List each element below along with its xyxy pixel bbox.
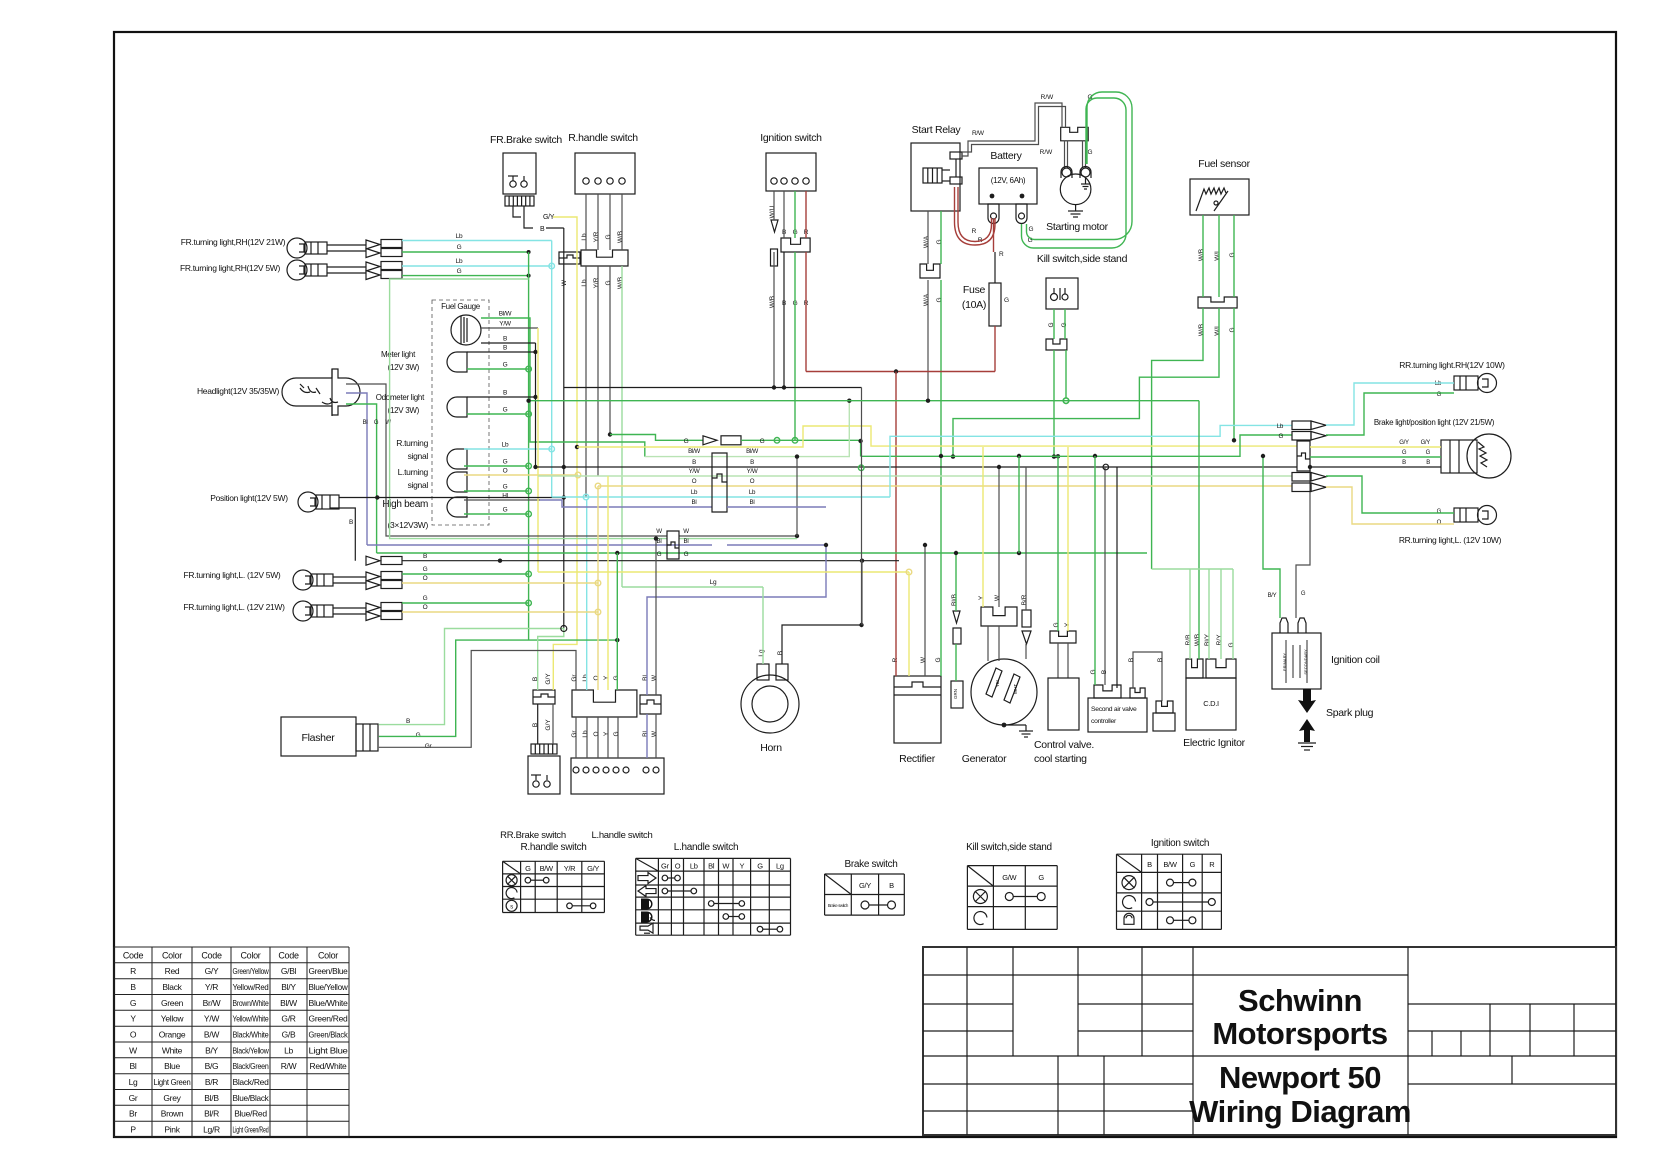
svg-text:R: R — [999, 251, 1004, 258]
svg-text:Y: Y — [978, 595, 985, 600]
svg-text:Gr: Gr — [425, 743, 433, 750]
svg-text:Brake light/position light (12: Brake light/position light (12V 21/5W) — [1374, 418, 1495, 427]
svg-text:Black/White: Black/White — [233, 1030, 269, 1040]
svg-text:Light Green: Light Green — [154, 1077, 192, 1087]
svg-text:PRIMARY: PRIMARY — [1282, 653, 1287, 671]
svg-text:W: W — [920, 656, 927, 663]
svg-text:Hl: Hl — [502, 493, 508, 500]
svg-text:Bl/W: Bl/W — [688, 448, 700, 455]
svg-text:Rectifier: Rectifier — [899, 753, 936, 765]
svg-text:B: B — [692, 459, 696, 466]
svg-text:W/B: W/B — [1198, 324, 1205, 336]
svg-text:G: G — [503, 507, 508, 514]
svg-text:G/R: G/R — [281, 1014, 295, 1024]
svg-text:G/Y: G/Y — [1421, 440, 1431, 446]
svg-text:FR.turning light,L. (12V 21W): FR.turning light,L. (12V 21W) — [183, 602, 285, 612]
svg-text:W/B: W/B — [1194, 634, 1201, 646]
svg-text:B: B — [889, 881, 894, 890]
svg-text:Spark plug: Spark plug — [1326, 707, 1374, 719]
svg-text:W/B: W/B — [617, 231, 624, 243]
svg-text:Lg: Lg — [776, 862, 784, 871]
svg-text:(12V, 6Ah): (12V, 6Ah) — [991, 176, 1026, 185]
svg-text:R/Y: R/Y — [1216, 634, 1223, 646]
svg-text:Lb: Lb — [749, 489, 756, 496]
svg-text:G: G — [1028, 226, 1033, 233]
svg-text:G: G — [1090, 669, 1097, 674]
svg-text:Blue/Red: Blue/Red — [234, 1109, 267, 1119]
svg-text:B: B — [503, 345, 507, 352]
svg-text:G/Y: G/Y — [545, 673, 552, 685]
svg-text:Y: Y — [130, 1014, 136, 1024]
svg-text:B/W: B/W — [1163, 860, 1177, 869]
svg-text:W: W — [385, 420, 391, 426]
svg-text:G: G — [525, 864, 531, 873]
svg-text:signal: signal — [408, 451, 429, 461]
svg-text:Bl/W: Bl/W — [746, 448, 758, 455]
svg-text:Lb: Lb — [691, 489, 698, 496]
svg-text:Green/Yellow: Green/Yellow — [233, 966, 270, 976]
svg-text:Position light(12V 5W): Position light(12V 5W) — [210, 493, 288, 503]
svg-text:G: G — [423, 595, 428, 602]
svg-text:Lb: Lb — [582, 674, 589, 682]
svg-text:Wiring Diagram: Wiring Diagram — [1189, 1094, 1411, 1129]
svg-text:G: G — [605, 280, 612, 285]
svg-text:Start Relay: Start Relay — [912, 124, 962, 136]
svg-text:O: O — [692, 478, 697, 485]
svg-text:G: G — [1190, 860, 1196, 869]
svg-text:Brake switch: Brake switch — [828, 903, 849, 908]
svg-text:Newport 50: Newport 50 — [1219, 1060, 1381, 1095]
svg-text:G: G — [760, 438, 765, 445]
svg-text:Green/Red: Green/Red — [309, 1014, 348, 1024]
svg-text:G: G — [613, 731, 620, 736]
svg-text:G: G — [936, 297, 943, 302]
svg-text:Color: Color — [240, 950, 260, 960]
svg-text:G: G — [1402, 450, 1407, 456]
svg-text:Horn: Horn — [760, 742, 782, 754]
svg-text:O: O — [750, 478, 755, 485]
svg-text:Y/R: Y/R — [593, 277, 600, 288]
svg-text:O: O — [423, 575, 428, 582]
svg-text:Bl/R: Bl/R — [204, 1109, 219, 1119]
svg-text:B: B — [349, 519, 353, 526]
svg-text:Blue/White: Blue/White — [309, 998, 349, 1008]
svg-text:G: G — [613, 675, 620, 680]
svg-text:Electric Ignitor: Electric Ignitor — [1183, 737, 1246, 749]
svg-text:Fuel sensor: Fuel sensor — [1198, 158, 1250, 170]
svg-text:Blue/Black: Blue/Black — [233, 1093, 270, 1103]
svg-text:Gr: Gr — [571, 674, 578, 682]
svg-text:Code: Code — [201, 950, 222, 960]
svg-text:Br/W: Br/W — [203, 998, 221, 1008]
svg-text:signal: signal — [408, 480, 429, 490]
svg-text:Orange: Orange — [159, 1030, 186, 1040]
svg-text:B/W: B/W — [540, 864, 554, 873]
svg-text:G: G — [503, 484, 508, 491]
svg-text:G: G — [503, 362, 508, 369]
svg-text:W/B: W/B — [1198, 249, 1205, 261]
svg-text:B: B — [1147, 860, 1152, 869]
svg-text:G: G — [1087, 149, 1092, 156]
svg-text:Headlight(12V 35/35W): Headlight(12V 35/35W) — [197, 386, 280, 396]
svg-text:G: G — [1229, 327, 1236, 332]
svg-text:Light Green/Red: Light Green/Red — [233, 1125, 269, 1135]
svg-text:R/W: R/W — [1041, 94, 1055, 101]
svg-text:W/L: W/L — [1214, 324, 1221, 336]
svg-text:W/B: W/B — [617, 277, 624, 289]
svg-text:(12V 3W): (12V 3W) — [388, 363, 420, 372]
svg-text:G/Y: G/Y — [587, 864, 599, 873]
svg-text:Generator: Generator — [962, 753, 1007, 765]
svg-text:G/B: G/B — [282, 1030, 296, 1040]
svg-text:G: G — [130, 998, 136, 1008]
svg-text:Black: Black — [162, 982, 182, 992]
svg-text:FR.Brake switch: FR.Brake switch — [490, 134, 562, 146]
svg-text:R.handle switch: R.handle switch — [568, 132, 638, 144]
svg-text:G: G — [657, 551, 662, 558]
svg-text:O: O — [593, 675, 600, 680]
svg-text:G: G — [423, 566, 428, 573]
svg-text:R: R — [1209, 860, 1215, 869]
svg-text:Motorsports: Motorsports — [1212, 1016, 1387, 1051]
svg-text:B: B — [503, 390, 507, 397]
svg-text:G: G — [1004, 297, 1009, 304]
svg-text:FR.turning light,L. (12V 5W): FR.turning light,L. (12V 5W) — [184, 570, 281, 580]
svg-text:Grey: Grey — [163, 1093, 181, 1103]
svg-text:R: R — [972, 228, 977, 235]
svg-text:L.handle switch: L.handle switch — [674, 842, 738, 853]
svg-text:RR.Brake switch: RR.Brake switch — [500, 830, 566, 841]
svg-text:FR.turning light,RH(12V 5W): FR.turning light,RH(12V 5W) — [180, 263, 281, 273]
svg-text:Ignition switch: Ignition switch — [760, 132, 822, 144]
svg-text:G: G — [1229, 252, 1236, 257]
svg-text:Y/W: Y/W — [204, 1014, 219, 1024]
svg-text:Green/Blue: Green/Blue — [309, 966, 349, 976]
svg-text:Battery: Battery — [990, 150, 1022, 162]
svg-text:Schwinn: Schwinn — [1238, 983, 1362, 1018]
svg-text:W/A: W/A — [923, 293, 930, 306]
svg-text:YEL: YEL — [995, 678, 1000, 687]
svg-text:Code: Code — [123, 950, 144, 960]
svg-text:Light Blue: Light Blue — [309, 1045, 349, 1055]
svg-text:G/Y: G/Y — [545, 719, 552, 731]
svg-text:Color: Color — [318, 950, 338, 960]
svg-text:Black/Yellow: Black/Yellow — [233, 1045, 270, 1055]
svg-text:Brown/White: Brown/White — [233, 998, 269, 1008]
svg-text:Y/R: Y/R — [593, 231, 600, 242]
svg-text:White: White — [162, 1045, 183, 1055]
svg-text:Fuse: Fuse — [963, 284, 986, 296]
svg-text:P: P — [130, 1125, 136, 1135]
svg-text:Blue/Yellow: Blue/Yellow — [309, 982, 349, 992]
svg-text:Bl/W: Bl/W — [280, 998, 297, 1008]
svg-text:GRN: GRN — [953, 689, 958, 699]
svg-text:B: B — [1128, 658, 1135, 662]
svg-text:W: W — [651, 674, 658, 681]
svg-text:G/W: G/W — [1002, 873, 1017, 882]
svg-text:Yellow: Yellow — [161, 1014, 185, 1024]
svg-text:controller: controller — [1091, 718, 1117, 725]
svg-text:Lb: Lb — [284, 1045, 293, 1055]
svg-text:W: W — [656, 528, 662, 535]
svg-text:G: G — [1278, 433, 1283, 440]
svg-text:G: G — [1053, 622, 1060, 627]
svg-text:Y: Y — [739, 862, 744, 871]
svg-text:Lg/R: Lg/R — [203, 1125, 220, 1135]
svg-text:Blue: Blue — [164, 1061, 180, 1071]
svg-text:(3×12V3W): (3×12V3W) — [387, 520, 428, 530]
svg-text:W/B: W/B — [769, 296, 776, 308]
svg-text:B/Y: B/Y — [1268, 593, 1277, 599]
svg-text:R.handle switch: R.handle switch — [520, 842, 586, 853]
svg-text:Gr: Gr — [661, 862, 670, 871]
svg-text:G/Y: G/Y — [205, 966, 219, 976]
svg-text:Bl: Bl — [642, 731, 649, 737]
svg-text:SECONDARY: SECONDARY — [1303, 649, 1308, 675]
svg-text:B: B — [750, 459, 754, 466]
svg-text:WHT: WHT — [1013, 684, 1018, 694]
svg-text:Red/White: Red/White — [310, 1061, 348, 1071]
svg-text:FR.turning light,RH(12V 21W): FR.turning light,RH(12V 21W) — [181, 237, 286, 247]
svg-text:W: W — [129, 1045, 137, 1055]
svg-text:Kill switch,side stand: Kill switch,side stand — [1037, 253, 1128, 265]
svg-text:B: B — [503, 336, 507, 343]
svg-text:Y/W: Y/W — [747, 468, 758, 475]
svg-text:Bl: Bl — [692, 499, 697, 506]
svg-text:Yellow/Red: Yellow/Red — [233, 982, 270, 992]
svg-text:Bl: Bl — [130, 1061, 137, 1071]
svg-text:B: B — [1426, 460, 1430, 466]
svg-text:Y/W: Y/W — [499, 321, 512, 328]
svg-text:Bl: Bl — [708, 862, 715, 871]
svg-text:B/W: B/W — [204, 1030, 219, 1040]
svg-text:Bl/B: Bl/B — [951, 594, 958, 606]
svg-text:B/Y: B/Y — [205, 1045, 218, 1055]
svg-text:Lb: Lb — [581, 233, 588, 241]
svg-text:G: G — [416, 732, 421, 739]
svg-text:C.D.I: C.D.I — [1203, 699, 1219, 708]
svg-text:Fuel Gauge: Fuel Gauge — [441, 302, 481, 311]
svg-text:G: G — [503, 407, 508, 414]
svg-text:Black/Green: Black/Green — [233, 1061, 269, 1071]
svg-text:G: G — [374, 420, 379, 426]
svg-text:Lg: Lg — [758, 649, 765, 657]
svg-text:R/B: R/B — [1185, 635, 1192, 646]
svg-text:Odometer light: Odometer light — [376, 393, 425, 402]
svg-text:Bl: Bl — [642, 675, 649, 681]
svg-text:B/R: B/R — [205, 1077, 218, 1087]
svg-text:Meter light: Meter light — [381, 350, 416, 359]
svg-text:Y/W: Y/W — [689, 468, 700, 475]
svg-text:Ignition coil: Ignition coil — [1331, 654, 1380, 666]
svg-text:Code: Code — [278, 950, 299, 960]
svg-text:B/R: B/R — [1021, 594, 1028, 605]
svg-text:Bl/B: Bl/B — [204, 1093, 219, 1103]
svg-text:Pink: Pink — [164, 1125, 180, 1135]
svg-text:L.handle switch: L.handle switch — [592, 830, 653, 841]
svg-text:G: G — [457, 244, 462, 251]
svg-text:Green: Green — [161, 998, 184, 1008]
svg-text:Lb: Lb — [456, 258, 463, 265]
svg-text:G/Y: G/Y — [859, 881, 871, 890]
svg-text:Y: Y — [603, 675, 610, 680]
svg-text:Kill switch,side stand: Kill switch,side stand — [966, 842, 1052, 853]
svg-text:Lb: Lb — [690, 862, 698, 871]
svg-text:Lb: Lb — [456, 233, 463, 240]
svg-text:Starting motor: Starting motor — [1046, 221, 1109, 233]
svg-text:W: W — [994, 594, 1001, 601]
svg-text:G: G — [1228, 642, 1235, 647]
svg-text:Lb: Lb — [502, 442, 509, 449]
svg-text:W/A: W/A — [923, 235, 930, 248]
svg-text:O: O — [503, 468, 508, 475]
svg-text:G: G — [1301, 591, 1306, 597]
svg-text:(12V 3W): (12V 3W) — [388, 406, 420, 415]
svg-text:L.turning: L.turning — [398, 467, 429, 477]
svg-text:Lg: Lg — [710, 579, 717, 586]
svg-text:Bl/W: Bl/W — [499, 311, 513, 318]
svg-text:G: G — [757, 862, 763, 871]
svg-text:Gr: Gr — [129, 1093, 138, 1103]
svg-text:Lg: Lg — [129, 1077, 138, 1087]
svg-text:W: W — [561, 279, 568, 286]
svg-text:B: B — [1402, 460, 1406, 466]
svg-text:Bl/Y: Bl/Y — [1204, 633, 1211, 646]
svg-text:Brake switch: Brake switch — [844, 859, 897, 870]
svg-text:O: O — [593, 731, 600, 736]
svg-text:B/G: B/G — [205, 1061, 219, 1071]
svg-text:Lb: Lb — [582, 730, 589, 738]
svg-text:R.turning: R.turning — [396, 438, 428, 448]
svg-text:Green/Black: Green/Black — [309, 1030, 349, 1040]
svg-text:Ignition switch: Ignition switch — [1151, 838, 1209, 849]
svg-text:Control valve.: Control valve. — [1034, 739, 1094, 751]
svg-text:G: G — [1437, 509, 1442, 515]
svg-text:RR.turning light,L. (12V 10W): RR.turning light,L. (12V 10W) — [1399, 535, 1502, 545]
svg-text:Y/R: Y/R — [564, 864, 576, 873]
svg-text:B: B — [130, 982, 136, 992]
svg-text:Red: Red — [165, 966, 180, 976]
svg-text:Black/Red: Black/Red — [232, 1077, 269, 1087]
svg-text:G: G — [936, 239, 943, 244]
svg-text:Y/R: Y/R — [205, 982, 218, 992]
svg-text:Bl: Bl — [684, 538, 689, 545]
svg-text:B: B — [777, 651, 784, 655]
svg-text:G: G — [1426, 450, 1431, 456]
svg-text:Brown: Brown — [161, 1109, 184, 1119]
svg-text:G/Y: G/Y — [1399, 440, 1409, 446]
svg-text:s: s — [510, 904, 513, 910]
svg-text:O: O — [1437, 520, 1442, 526]
svg-text:G: G — [605, 234, 612, 239]
svg-text:Lb: Lb — [1277, 423, 1284, 430]
svg-text:O: O — [423, 604, 428, 611]
svg-text:B: B — [1157, 658, 1164, 662]
svg-text:R/W: R/W — [1040, 149, 1054, 156]
svg-text:O: O — [130, 1030, 137, 1040]
svg-text:Lb: Lb — [581, 279, 588, 287]
svg-text:R: R — [130, 966, 136, 976]
svg-text:Bl: Bl — [750, 499, 755, 506]
svg-text:(10A): (10A) — [962, 299, 986, 311]
svg-text:G: G — [684, 438, 689, 445]
svg-text:Color: Color — [162, 950, 182, 960]
svg-text:RR.turning light.RH(12V 10W): RR.turning light.RH(12V 10W) — [1399, 360, 1505, 370]
svg-text:O: O — [675, 862, 681, 871]
svg-text:W: W — [683, 528, 689, 535]
svg-text:Gr: Gr — [571, 730, 578, 738]
svg-text:W/L: W/L — [1214, 249, 1221, 261]
svg-text:Flasher: Flasher — [302, 732, 336, 744]
svg-text:B: B — [540, 226, 545, 233]
svg-text:G: G — [684, 551, 689, 558]
svg-text:Y: Y — [603, 731, 610, 736]
svg-text:Bl/Y: Bl/Y — [281, 982, 296, 992]
svg-text:cool starting: cool starting — [1034, 753, 1087, 765]
svg-text:B: B — [423, 553, 427, 560]
svg-text:W: W — [651, 730, 658, 737]
svg-text:G/Bl: G/Bl — [281, 966, 297, 976]
svg-text:Bl: Bl — [363, 420, 368, 426]
svg-text:Br: Br — [129, 1109, 137, 1119]
svg-text:R/W: R/W — [972, 130, 985, 137]
svg-text:R/W: R/W — [281, 1061, 297, 1071]
svg-text:G: G — [457, 268, 462, 275]
svg-text:G: G — [1038, 873, 1044, 882]
svg-text:G: G — [503, 459, 508, 466]
svg-text:Second air valve: Second air valve — [1091, 706, 1137, 713]
svg-text:Yellow/White: Yellow/White — [233, 1014, 269, 1024]
svg-text:Lb: Lb — [1435, 381, 1442, 387]
svg-text:W/U: W/U — [769, 205, 776, 218]
